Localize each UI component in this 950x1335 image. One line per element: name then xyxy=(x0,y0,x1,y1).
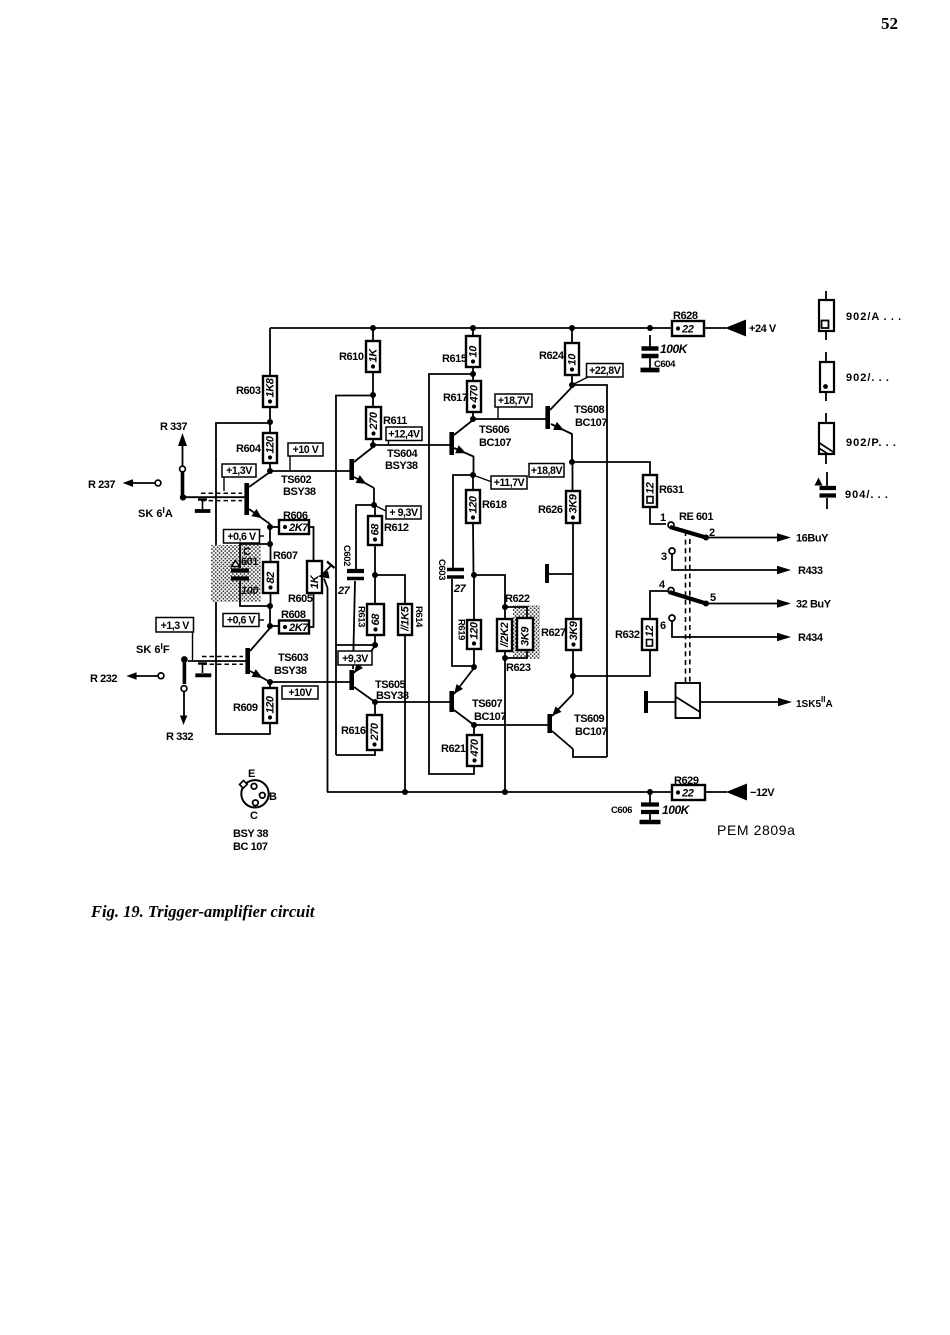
svg-text:Fig. 19. Trigger-amplifier cir: Fig. 19. Trigger-amplifier circuit xyxy=(90,902,315,921)
wire tap to stage-left vertical xyxy=(429,374,474,774)
capacitor C603 xyxy=(447,568,464,572)
resistor R627 xyxy=(572,575,574,619)
input node SK6F thick stub xyxy=(181,656,188,663)
svg-text:27: 27 xyxy=(453,583,467,595)
wire TS609 collector up xyxy=(572,676,574,694)
svg-text:R618: R618 xyxy=(482,499,507,511)
svg-text:BSY38: BSY38 xyxy=(274,665,307,677)
resistor R621 xyxy=(473,725,475,735)
svg-text:TS609: TS609 xyxy=(574,713,604,725)
wire TS604 emitter xyxy=(373,488,375,505)
wire TS603 emitter to TS605 base xyxy=(270,681,352,683)
svg-text:BSY38: BSY38 xyxy=(283,486,316,498)
wire contact 3 to R433 xyxy=(672,554,777,570)
svg-text:R607: R607 xyxy=(273,550,298,562)
input node SK6A thick stub xyxy=(181,472,185,496)
node R610/R611 xyxy=(370,392,376,398)
wire R608 to R605 bottom xyxy=(309,593,314,627)
svg-text:BC107: BC107 xyxy=(575,726,607,738)
wire emitter to C603 xyxy=(453,475,473,568)
svg-text:+1,3 V: +1,3 V xyxy=(161,620,190,632)
svg-text:32 BuY: 32 BuY xyxy=(796,599,832,611)
svg-text:C602: C602 xyxy=(341,545,352,566)
resistor R616 xyxy=(374,702,376,715)
relay contact arm 1-2 xyxy=(670,527,706,538)
svg-text:R613: R613 xyxy=(356,606,367,627)
transistor TS606 xyxy=(449,432,454,455)
output arrow 32BuY xyxy=(777,599,791,608)
svg-text:SK 6IA: SK 6IA xyxy=(138,505,173,520)
svg-text:R 232: R 232 xyxy=(90,673,117,685)
svg-text:BSY38: BSY38 xyxy=(385,460,418,472)
voltage label +10 V xyxy=(288,443,323,456)
transistor TS607 xyxy=(449,691,454,712)
svg-text:52: 52 xyxy=(881,14,898,33)
relay coil RE601 xyxy=(676,683,701,718)
ground chassis tap at R626/R627 xyxy=(545,564,549,583)
svg-text:R619: R619 xyxy=(456,619,467,640)
svg-text:SK 6IF: SK 6IF xyxy=(136,641,170,656)
wire R615/R617 xyxy=(472,367,474,381)
svg-text:R627: R627 xyxy=(541,627,566,639)
svg-text://2K2: //2K2 xyxy=(499,622,511,648)
node R612/R613/R614 xyxy=(372,572,378,578)
svg-text:120: 120 xyxy=(265,435,277,453)
svg-text:+24 V: +24 V xyxy=(749,323,777,335)
transistor TS602 xyxy=(244,483,249,515)
voltage label +22,8V xyxy=(572,377,588,385)
node TS607 emitter xyxy=(471,722,477,728)
capacitor C602 xyxy=(347,569,364,573)
wire R603 to R604 xyxy=(269,407,271,433)
svg-text:TS602: TS602 xyxy=(281,474,311,486)
node R603/R604 bias tap xyxy=(267,419,273,425)
resistor R612 xyxy=(374,505,376,516)
svg-text:470: 470 xyxy=(469,384,481,403)
svg-text:1K: 1K xyxy=(368,348,380,363)
node emitter/R612 xyxy=(371,502,377,508)
wire R627 bottom xyxy=(572,650,574,676)
wire feedback branch left and down xyxy=(336,396,373,756)
wire R617 bottom xyxy=(472,412,474,419)
svg-text:PEM 2809a: PEM 2809a xyxy=(717,822,796,838)
wire coil to 1SK5 xyxy=(700,701,778,703)
wire SK6F to TS603 base (screened: solid + dashed pair) xyxy=(188,660,246,662)
svg-text:902/P. . .: 902/P. . . xyxy=(846,437,897,449)
node TS605 emitter xyxy=(372,699,378,705)
svg-text:+0,6 V: +0,6 V xyxy=(227,531,256,543)
svg-text:C604: C604 xyxy=(654,359,676,370)
wire +24V supply bus xyxy=(270,327,672,329)
svg-text:+ 9,3V: + 9,3V xyxy=(389,507,418,519)
transistor TS605 xyxy=(349,670,354,690)
svg-text:3: 3 xyxy=(661,551,667,563)
svg-text:27: 27 xyxy=(337,585,351,597)
svg-text:120: 120 xyxy=(265,695,277,713)
node rail C606 xyxy=(647,789,653,795)
svg-text:+18,8V: +18,8V xyxy=(531,465,563,477)
voltage label +1,3V xyxy=(222,464,256,477)
svg-text:+9,3V: +9,3V xyxy=(342,653,368,665)
transistor case pinout xyxy=(241,780,268,807)
svg-text:1: 1 xyxy=(660,512,666,524)
wire R613 to TS605 collector node xyxy=(374,635,376,645)
wire R611 to base line xyxy=(372,439,374,445)
legend symbol 902/A xyxy=(825,291,827,300)
chassis bar at coil xyxy=(644,691,648,713)
svg-text:R608: R608 xyxy=(281,609,306,621)
svg-text:TS603: TS603 xyxy=(278,652,308,664)
svg-text:12: 12 xyxy=(645,482,657,494)
wire stage bottom R616 xyxy=(336,750,375,755)
resistor R606 xyxy=(270,526,279,528)
node R622 top xyxy=(502,604,508,610)
svg-text:C603: C603 xyxy=(436,559,447,580)
+24V terminal arrow xyxy=(725,320,746,337)
wire R612 bottom xyxy=(374,545,376,575)
node TS608 emitter xyxy=(569,459,575,465)
voltage label + 9,3V xyxy=(374,505,388,512)
voltage label +11,7V xyxy=(473,475,492,482)
capacitor C606 xyxy=(649,792,651,803)
wire SK6A to TS602 base (screened: solid + dashed pair) xyxy=(183,496,245,498)
svg-text:TS607: TS607 xyxy=(472,698,502,710)
node TS603 emitter xyxy=(267,679,273,685)
wire C602 to TS605 base xyxy=(353,581,355,669)
svg-text:R631: R631 xyxy=(659,484,684,496)
svg-text:R610: R610 xyxy=(339,351,364,363)
node C601/R607 bottom xyxy=(267,603,273,609)
svg-text:R623: R623 xyxy=(506,662,531,674)
svg-text:BC107: BC107 xyxy=(479,437,511,449)
wire contact 5 to 32BuY xyxy=(706,603,777,605)
svg-text:R622: R622 xyxy=(505,593,530,605)
svg-text:10: 10 xyxy=(567,353,579,366)
transistor TS603 xyxy=(245,648,250,674)
input R332 arrow xyxy=(183,692,185,717)
transistor TS604 xyxy=(349,459,354,480)
svg-text:BC107: BC107 xyxy=(575,417,607,429)
node TS602 collector xyxy=(267,468,273,474)
wire pair down to -12V rail xyxy=(504,658,506,792)
wire R628 to arrow xyxy=(704,327,726,329)
svg-text:22: 22 xyxy=(681,324,694,336)
svg-text:12: 12 xyxy=(644,625,656,637)
svg-text:−12V: −12V xyxy=(750,787,775,799)
svg-text:R 332: R 332 xyxy=(166,731,193,743)
wire bus drop to R603 xyxy=(269,328,271,376)
svg-text:R621: R621 xyxy=(441,743,466,755)
svg-text:902/A . . .: 902/A . . . xyxy=(846,311,902,323)
svg-text:R433: R433 xyxy=(798,565,823,577)
svg-text:+10 V: +10 V xyxy=(293,444,319,456)
voltage label +12,4V xyxy=(388,440,390,445)
wire TS607 emitter to TS609 base xyxy=(474,724,548,726)
node TS607 collector xyxy=(471,664,477,670)
node bus-C604 xyxy=(647,325,653,331)
wire R610 bottom node xyxy=(372,372,374,407)
wire R605 wiper tap down to rail xyxy=(324,579,328,793)
transistor TS609 xyxy=(547,714,552,733)
svg-text:R611: R611 xyxy=(383,415,407,427)
relay actuator dashed link xyxy=(685,531,687,683)
node bus-R624 xyxy=(569,325,575,331)
svg-text:TS608: TS608 xyxy=(574,404,604,416)
wire to R614 xyxy=(375,575,405,604)
svg-text:R617: R617 xyxy=(443,392,468,404)
wire C603 to TS607 collector node xyxy=(452,579,474,666)
resistor R618 xyxy=(472,475,474,490)
wire TS605 emitter to TS607 base xyxy=(375,701,450,703)
svg-text:R604: R604 xyxy=(236,443,262,455)
svg-text:TS604: TS604 xyxy=(387,448,418,460)
svg-text:R616: R616 xyxy=(341,725,366,737)
svg-text:3K9: 3K9 xyxy=(568,493,580,513)
node TS608 collector xyxy=(569,382,575,388)
-12V terminal arrow xyxy=(726,784,747,801)
node TS609 collector xyxy=(570,673,576,679)
svg-text:120: 120 xyxy=(469,621,481,639)
svg-text:R626: R626 xyxy=(538,504,563,516)
svg-text:100K: 100K xyxy=(660,342,689,356)
wire R631 to contact 1 xyxy=(650,507,666,524)
svg-text:R605: R605 xyxy=(288,593,313,605)
node TS606 collector xyxy=(470,416,476,422)
svg-text:10: 10 xyxy=(468,345,480,358)
transistor TS608 xyxy=(545,406,550,429)
output arrow 16BuY xyxy=(777,533,791,542)
svg-text:R 237: R 237 xyxy=(88,479,115,491)
svg-text:1K8: 1K8 xyxy=(265,377,277,397)
wire collector node to R632 xyxy=(573,650,650,676)
resistor R608 xyxy=(270,625,279,627)
svg-text:C: C xyxy=(250,810,258,822)
wire -12V rail xyxy=(327,791,672,793)
node bus-R615 xyxy=(470,325,476,331)
svg-text:68: 68 xyxy=(370,613,382,626)
wire contact 6 to R434 xyxy=(672,621,777,637)
output arrow R433 xyxy=(777,566,791,575)
svg-text:+22,8V: +22,8V xyxy=(589,365,621,377)
voltage label +0,6 V xyxy=(224,530,260,544)
wire emitter to C602 xyxy=(356,505,374,569)
svg-text:100K: 100K xyxy=(662,803,691,817)
svg-text:6: 6 xyxy=(660,620,666,632)
wire collector node right xyxy=(572,385,607,757)
svg-text:+10V: +10V xyxy=(288,687,312,699)
voltage label +0,6 V (second) xyxy=(223,614,259,627)
node rail R614 xyxy=(402,789,408,795)
wire TS602 collector to TS604 base xyxy=(270,470,350,472)
svg-text:120: 120 xyxy=(468,495,480,513)
wire TS602 emitter down xyxy=(269,524,271,544)
svg-text:470: 470 xyxy=(469,738,481,757)
wire R606 to R605 top xyxy=(309,527,314,561)
svg-text:R609: R609 xyxy=(233,702,258,714)
legend symbol 902/ xyxy=(825,352,827,362)
svg-text:100: 100 xyxy=(241,585,259,597)
svg-text://1K5: //1K5 xyxy=(400,605,412,632)
wire TS609 emitter loop xyxy=(573,749,607,757)
wire R626 bottom xyxy=(572,523,574,575)
node TS605 collector xyxy=(372,642,378,648)
svg-text:BSY 38: BSY 38 xyxy=(233,828,268,840)
svg-text:2K7: 2K7 xyxy=(288,622,309,634)
wire R618 bottom xyxy=(472,523,475,575)
svg-text:R612: R612 xyxy=(384,522,409,534)
svg-text:270: 270 xyxy=(369,722,381,741)
svg-text:+0,6 V: +0,6 V xyxy=(227,615,256,627)
svg-text:3K9: 3K9 xyxy=(568,620,580,640)
svg-text:68: 68 xyxy=(370,523,382,536)
svg-text:E: E xyxy=(248,768,255,780)
svg-text:904/. . .: 904/. . . xyxy=(845,489,889,501)
svg-text:BSY38: BSY38 xyxy=(376,690,409,702)
svg-text:TS606: TS606 xyxy=(479,424,509,436)
resistor R626 xyxy=(572,462,574,491)
resistor R609 xyxy=(269,682,271,688)
wire feedback to TS605 collector xyxy=(336,644,375,646)
svg-text:R632: R632 xyxy=(615,629,640,641)
svg-text:R614: R614 xyxy=(413,606,424,628)
svg-text:R 337: R 337 xyxy=(160,421,187,433)
svg-text:+1,3V: +1,3V xyxy=(226,465,252,477)
capacitor C601 (shaded block) xyxy=(211,545,261,602)
svg-text:BC107: BC107 xyxy=(474,711,506,723)
legend symbol 904/ capacitor xyxy=(815,478,823,486)
wire emitter to R631 xyxy=(572,462,650,475)
svg-text:+18,7V: +18,7V xyxy=(498,395,530,407)
wire R619 bottom xyxy=(473,649,475,667)
input +1,3 V label (SK6F) xyxy=(156,618,194,633)
node R608 tap xyxy=(267,623,273,629)
svg-text:BC 107: BC 107 xyxy=(233,841,268,853)
svg-text:R603: R603 xyxy=(236,385,261,397)
wire R632 to contact 4 xyxy=(650,591,668,619)
capacitor C604 xyxy=(649,335,651,347)
node R606 tap xyxy=(267,524,273,530)
node R615/R617 tap xyxy=(470,371,476,377)
svg-text:C606: C606 xyxy=(611,805,632,816)
voltage label +9,3V (TS605) xyxy=(338,651,372,665)
svg-text:B: B xyxy=(269,791,277,803)
wire contact 2 to 16BuY xyxy=(706,537,777,539)
node R618/R619/R622 xyxy=(471,572,477,578)
wire to R622/R623 pair xyxy=(474,575,505,607)
svg-text:902/. . .: 902/. . . xyxy=(846,372,890,384)
svg-text:16BuY: 16BuY xyxy=(796,533,829,545)
svg-text:270: 270 xyxy=(368,411,380,430)
svg-text:RE 601: RE 601 xyxy=(679,511,713,523)
svg-text:R434: R434 xyxy=(798,632,824,644)
svg-text:R624: R624 xyxy=(539,350,565,362)
wire bias loop left side xyxy=(216,423,270,734)
svg-text:3K9: 3K9 xyxy=(520,626,532,646)
voltage label +18,8V xyxy=(529,464,564,478)
svg-text:22: 22 xyxy=(681,788,694,800)
svg-text:82: 82 xyxy=(265,572,277,584)
ground chassis at SK6A xyxy=(198,498,207,500)
ground chassis at SK6F xyxy=(198,662,207,664)
relay contact arm 4-5 xyxy=(669,592,706,604)
svg-text:+12,4V: +12,4V xyxy=(388,429,420,441)
wire to TS608 base xyxy=(473,418,546,420)
wire down to R608 node xyxy=(269,606,271,627)
svg-text:601: 601 xyxy=(241,556,258,568)
voltage label +18,7V xyxy=(497,407,499,419)
wire R629 to arrow xyxy=(705,791,727,793)
node C601/R607 top xyxy=(267,541,273,547)
svg-text:R615: R615 xyxy=(442,353,467,365)
node TS604 collector xyxy=(370,442,376,448)
voltage label +10V (lower) xyxy=(282,686,318,699)
output arrow 1SK5 II A xyxy=(778,698,792,707)
output arrow R434 xyxy=(777,633,791,642)
node TS606 emitter xyxy=(470,472,476,478)
wire R614 down to -12V rail xyxy=(404,635,406,792)
svg-text:2K7: 2K7 xyxy=(288,522,309,534)
node R623 bottom xyxy=(502,655,508,661)
wire to TS606 base xyxy=(373,444,450,446)
legend symbol 902/P xyxy=(825,413,827,423)
svg-text:+11,7V: +11,7V xyxy=(494,477,525,489)
node bus-R610 xyxy=(370,325,376,331)
wire R604 to TS602 collector node xyxy=(269,463,271,471)
node rail R623 xyxy=(502,789,508,795)
wire R624 bottom xyxy=(571,375,573,385)
svg-text:5: 5 xyxy=(710,592,716,604)
